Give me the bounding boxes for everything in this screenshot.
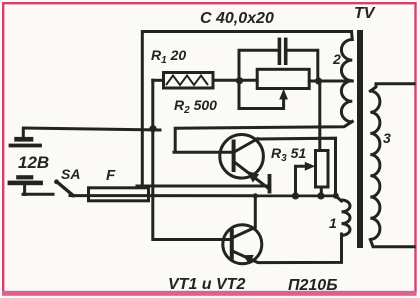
svg-text:П210Б: П210Б (288, 277, 338, 294)
svg-text:F: F (106, 167, 116, 184)
svg-text:VT1 и VT2: VT1 и VT2 (168, 276, 245, 293)
svg-text:1: 1 (329, 215, 337, 231)
svg-text:12В: 12В (18, 153, 49, 172)
svg-text:С 40,0х20: С 40,0х20 (200, 10, 274, 27)
svg-text:3: 3 (383, 130, 391, 146)
svg-text:TV: TV (354, 5, 376, 22)
svg-text:2: 2 (332, 51, 341, 67)
svg-text:SA: SA (61, 166, 80, 182)
